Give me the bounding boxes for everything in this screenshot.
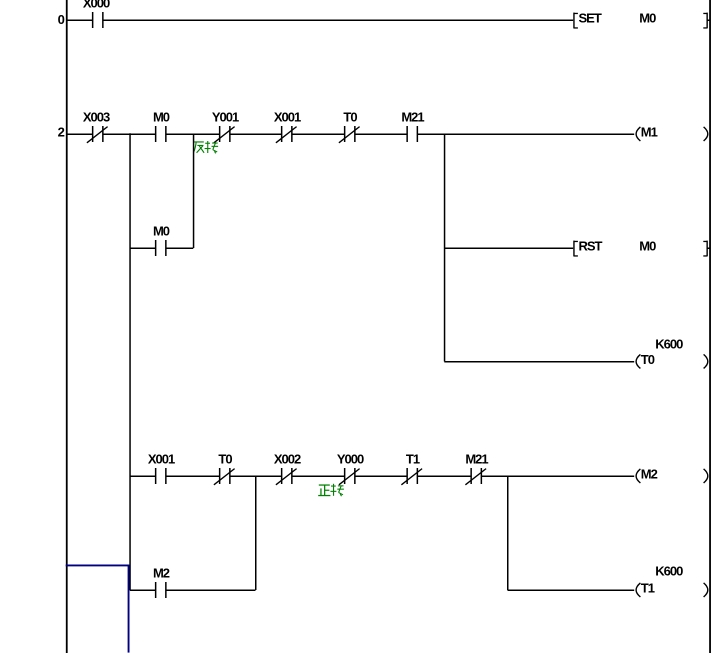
contact X000 [83, 0, 110, 28]
wire lower T1 to M21 [417, 475, 471, 477]
svg-text:M21: M21 [465, 452, 488, 467]
svg-text:M1: M1 [641, 125, 658, 140]
wire lower rung start to X001 [130, 475, 156, 477]
contact M0 [153, 110, 170, 143]
wire branch vertical right of M0 branch [193, 134, 195, 248]
svg-text:M21: M21 [401, 110, 424, 125]
svg-text:2: 2 [58, 125, 65, 140]
wire rung2 X003 to M0 [103, 133, 156, 135]
wire M2 branch right [166, 589, 256, 591]
wire lower M21 to coil M2 [481, 475, 634, 477]
coil T1 [636, 581, 708, 597]
instruction SET M0 [574, 11, 707, 29]
wire RST to right rail [707, 247, 710, 249]
wire rung2 Y001 to X001 [230, 133, 282, 135]
svg-text:X001: X001 [148, 452, 175, 467]
svg-text:X000: X000 [83, 0, 110, 11]
svg-text:K600: K600 [655, 336, 683, 351]
svg-text:X001: X001 [274, 110, 301, 125]
contact M21 [401, 110, 424, 143]
wire rung0 SET to right rail [707, 19, 710, 21]
wire RST row [444, 247, 573, 249]
wire lower T0 to X002 [230, 475, 282, 477]
wire rung2 rail to X003 [67, 133, 93, 135]
wire branch vertical after M21 (node B) [444, 134, 446, 362]
comment label zhengzhuan (green) [318, 484, 344, 496]
svg-text:M0: M0 [639, 239, 656, 254]
wire branch vertical right of M2 branch [255, 476, 257, 590]
svg-text:X003: X003 [83, 110, 110, 125]
svg-text:T1: T1 [641, 581, 655, 596]
contact Y001 [212, 110, 239, 143]
contact X001 [274, 110, 301, 143]
wire T1 coil row [508, 589, 635, 591]
wire rung2 M0 to Y001 [166, 133, 220, 135]
svg-text:RST: RST [579, 239, 603, 254]
contact X002 [274, 452, 301, 485]
svg-text:T1: T1 [406, 452, 420, 467]
left power rail [66, 0, 68, 653]
svg-text:0: 0 [58, 12, 65, 27]
contact T0 [339, 110, 360, 143]
svg-text:M0: M0 [153, 110, 170, 125]
wire rung0 rail to X000 [67, 19, 93, 21]
contact X003 [83, 110, 110, 143]
right power rail [709, 0, 711, 653]
contact X001 lower [148, 452, 175, 485]
contact M0 parallel [153, 224, 170, 257]
svg-text:T0: T0 [218, 452, 232, 467]
coil T0 [636, 352, 708, 368]
svg-text:T0: T0 [641, 352, 655, 367]
wire rung2 M21 to coil M1 [417, 133, 634, 135]
wire lower X001 to T0 [166, 475, 220, 477]
wire M0 branch right [166, 247, 194, 249]
svg-text:K600: K600 [655, 564, 683, 579]
svg-text:M2: M2 [641, 467, 658, 482]
contact T0 lower [214, 452, 235, 485]
contact Y000 [337, 452, 364, 485]
contact M2 parallel [153, 566, 170, 599]
comment label fanzhuan (green) [193, 141, 218, 153]
wire branch vertical after M21 lower (node C) [507, 476, 509, 590]
svg-text:Y001: Y001 [212, 110, 239, 125]
wire rung2 T0 to M21 [355, 133, 407, 135]
coil M1 [636, 125, 708, 141]
wire lower Y000 to T1 [355, 475, 407, 477]
wire branch vertical at X003 (node A) [129, 133, 131, 590]
wire rung2 X001 to T0 [292, 133, 345, 135]
svg-text:M2: M2 [153, 566, 170, 581]
contact T1 [401, 452, 422, 485]
selection cursor (blue) top edge [66, 564, 130, 566]
svg-text:M0: M0 [639, 11, 656, 26]
wire M2 branch left [130, 589, 156, 591]
svg-text:X002: X002 [274, 452, 301, 467]
coil M2 [636, 467, 708, 483]
svg-text:SET: SET [579, 11, 602, 26]
svg-text:M0: M0 [153, 224, 170, 239]
svg-text:T0: T0 [343, 110, 357, 125]
wire lower X002 to Y000 [292, 475, 345, 477]
wire T0 coil row [444, 361, 634, 363]
wire M0 branch left [130, 247, 156, 249]
svg-text:Y000: Y000 [337, 452, 364, 467]
selection cursor (blue) right edge [128, 565, 130, 652]
contact M21 lower [465, 452, 488, 485]
wire rung0 X000 to SET [103, 19, 574, 21]
instruction RST M0 [574, 239, 707, 257]
